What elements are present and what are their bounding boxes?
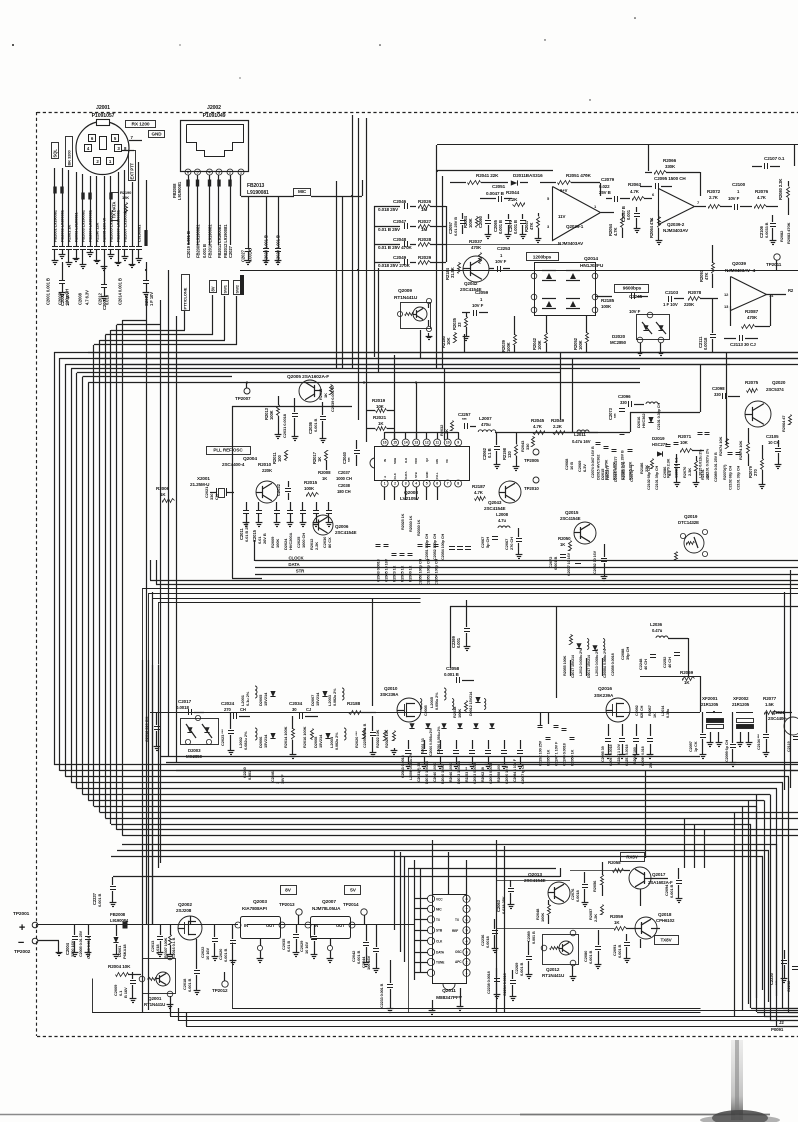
capacitor C2016 220 CH [144, 712, 160, 751]
svg-text:R2: R2 [788, 288, 794, 293]
ferrite bead FB2008 vlabel [172, 181, 182, 200]
capacitor C2035 [281, 925, 299, 957]
resistor R2006 1K [156, 486, 175, 503]
svg-text:R2062 39: R2062 39 [481, 767, 485, 782]
capacitor C2098 330 CH [712, 386, 740, 399]
signal label GND [149, 131, 165, 138]
capacitor C2040 [342, 440, 360, 466]
svg-text:0.01 25V B: 0.01 25V B [453, 217, 458, 236]
caps under Q2016 [601, 743, 653, 768]
inductor L2007 470u [478, 416, 540, 433]
svg-text:B 16V: B 16V [123, 987, 128, 998]
test point TP2010 [524, 477, 539, 491]
svg-text:6+V: 6+V [560, 188, 568, 193]
svg-text:R2070(?): R2070(?) [723, 464, 727, 480]
capacitor C2082 10 16V [593, 544, 607, 581]
resistor R2037 470K [469, 239, 483, 264]
capacitor C2236 0.001B [480, 919, 498, 953]
wire IF path [630, 676, 701, 713]
svg-text:RX8V: RX8V [626, 855, 639, 860]
capacitor C2095 1500 CH [640, 176, 686, 189]
ferrite bead mid [240, 275, 244, 295]
RX/TX section box [408, 869, 701, 1013]
svg-text:FB2007 L9190081: FB2007 L9190081 [123, 209, 128, 242]
transistor Q2009 RT1N441U [394, 288, 432, 340]
svg-text:21R1205: 21R1205 [701, 702, 719, 707]
resistor R2075 [745, 380, 759, 393]
svg-text:10 CK: 10 CK [768, 440, 779, 445]
caps column C2051-54 [425, 534, 471, 560]
svg-text:FB2013: FB2013 [247, 183, 265, 189]
svg-text:R2044: R2044 [506, 190, 520, 195]
svg-text:3: 3 [405, 482, 407, 486]
svg-text:IN: IN [244, 923, 248, 928]
svg-text:C2098: C2098 [712, 386, 725, 391]
capacitor C2034 30 CJ [289, 701, 318, 719]
capacitor C2062 [482, 432, 500, 469]
svg-text:C2005: C2005 [424, 705, 428, 716]
svg-text:C2043 0.0018: C2043 0.0018 [377, 559, 381, 582]
svg-text:R2080 2.2K: R2080 2.2K [778, 179, 783, 200]
capacitor C2107 [752, 156, 785, 169]
capacitor C2077 10 16V [567, 552, 581, 576]
svg-text:0.001 B: 0.001 B [669, 884, 674, 898]
svg-text:FB2003 L9190081: FB2003 L9190081 [81, 209, 86, 242]
signal label 8V [281, 886, 297, 895]
svg-text:C2090 10 B: C2090 10 B [505, 765, 509, 784]
svg-text:L2014: L2014 [661, 705, 665, 716]
svg-text:SQL: SQL [52, 149, 57, 158]
svg-text:P6KA18: P6KA18 [122, 944, 127, 959]
svg-text:0.022: 0.022 [599, 184, 610, 189]
svg-text:470K: 470K [471, 245, 482, 250]
FET Q2002 pass transistor [176, 902, 202, 940]
svg-text:14: 14 [404, 441, 408, 445]
svg-text:100K: 100K [457, 709, 462, 718]
svg-text:10 B: 10 B [569, 462, 574, 470]
svg-text:Q2021: Q2021 [772, 710, 785, 715]
test point TP2013 [279, 902, 302, 925]
svg-text:C2079: C2079 [601, 177, 615, 182]
svg-text:OUT: OUT [266, 923, 275, 928]
svg-text:1K: 1K [317, 457, 322, 462]
svg-text:1 F 10V: 1 F 10V [65, 292, 70, 306]
mixer diodes row [409, 723, 494, 729]
svg-text:C2037: C2037 [338, 470, 351, 475]
capacitor C2259 0.001 [451, 600, 470, 651]
wire PLL right rail [540, 412, 700, 433]
resistor R2180 [441, 333, 457, 349]
resistor R2035 33 [452, 313, 469, 341]
svg-text:5: 5 [465, 929, 467, 933]
resistor R2076 4.7K [755, 189, 779, 209]
schematic sheet border (dashed) [37, 112, 798, 1037]
digital transistor Q2001 RT1N441U [139, 954, 175, 1008]
diode D2011 BAS316 [492, 173, 543, 186]
diode D2007 15V214 [310, 691, 328, 706]
svg-text:R2187: R2187 [472, 484, 486, 489]
svg-text:TX8V: TX8V [660, 938, 672, 943]
svg-text:C2088 B 0.1: C2088 B 0.1 [675, 458, 679, 478]
J2001 fanout wires [55, 162, 147, 246]
svg-text:9600bps: 9600bps [623, 286, 642, 292]
svg-text:0.001 B: 0.001 B [532, 931, 536, 944]
capacitor C2102 68p CH [647, 466, 659, 490]
svg-text:DATA: DATA [436, 951, 445, 955]
svg-text:APC: APC [455, 960, 462, 964]
svg-text:4.7K: 4.7K [613, 227, 618, 236]
transistor Q2005 2SA1602A-F [287, 374, 329, 402]
svg-text:Q2039-1: Q2039-1 [566, 224, 584, 229]
svg-text:STR: STR [296, 569, 305, 574]
svg-text:Q2014: Q2014 [584, 256, 598, 262]
svg-text:6: 6 [187, 170, 189, 174]
transistor Q2012 RT1N441U [541, 930, 578, 980]
resistor R2066 330K [645, 158, 701, 196]
svg-text:FB2008: FB2008 [110, 912, 126, 917]
connector ref J2 P0091 [771, 1020, 784, 1032]
diode D2008 15V214 [313, 733, 331, 748]
svg-text:R2025 1K: R2025 1K [401, 513, 405, 530]
cluster above Q2016 [563, 635, 615, 679]
svg-text:2.2K: 2.2K [593, 914, 598, 922]
svg-text:Q2015: Q2015 [565, 510, 579, 515]
capacitor C2089b [527, 931, 536, 944]
capacitor C2051 0.0047B [480, 184, 512, 202]
resistor R2020 [354, 729, 366, 749]
regulator Q2003 KIA7808API [235, 899, 285, 963]
svg-text:R2087: R2087 [745, 309, 759, 314]
svg-text:L9190081: L9190081 [177, 181, 182, 200]
signal label BK 3200 [66, 137, 73, 167]
svg-text:1000 CH: 1000 CH [301, 533, 306, 548]
J2002 pin wires with ferrite beads FB2009-FB2012 [186, 175, 240, 245]
capacitor C2105 10 CK [766, 434, 781, 469]
Q2008 top pin wires [385, 432, 459, 439]
resistor R2022 10K [376, 729, 387, 748]
svg-text:31.5K: 31.5K [450, 267, 455, 278]
svg-text:0.0018: 0.0018 [703, 337, 708, 350]
terminal TP2002 [14, 937, 62, 956]
crystal filter XF2002 21R1205 [732, 696, 754, 747]
left column decoupling caps [52, 247, 143, 271]
FET Q2016 3SK239A [594, 686, 630, 722]
VCO right label forest [596, 433, 679, 481]
capacitor C2044 [361, 925, 379, 973]
power section box [93, 943, 701, 1013]
svg-text:D2020: D2020 [612, 334, 626, 339]
svg-text:C2050 100p CH: C2050 100p CH [419, 559, 423, 585]
svg-text:1 F 10V: 1 F 10V [663, 302, 678, 307]
svg-text:270 CH: 270 CH [509, 537, 514, 550]
svg-text:D2011BAS316: D2011BAS316 [513, 173, 543, 178]
svg-text:C2038: C2038 [338, 483, 351, 488]
mixer lower caps row [405, 740, 523, 762]
svg-text:39p CH: 39p CH [625, 647, 630, 660]
transistor Q2020 2SC5374 [745, 380, 786, 427]
svg-text:R2065 22K: R2065 22K [629, 461, 633, 480]
svg-text:R2006: R2006 [156, 486, 170, 491]
IC Q2011 M88347PFV [427, 895, 470, 1002]
svg-text:FB2004 L9190081: FB2004 L9190081 [88, 209, 93, 242]
resistor R2045 4.7K [531, 418, 545, 435]
J2001 pins [85, 135, 122, 165]
svg-text:R2082: R2082 [779, 230, 784, 242]
svg-text:Q2005 2SA1602A-F: Q2005 2SA1602A-F [287, 374, 329, 380]
resistor R2074 10K [738, 428, 750, 466]
svg-text:C2232: C2232 [786, 980, 791, 992]
svg-text:0.001 B: 0.001 B [313, 418, 318, 432]
svg-text:L2007: L2007 [479, 416, 492, 421]
svg-text:R2051 470K: R2051 470K [566, 173, 592, 178]
long vertical wires from J2001 area [147, 270, 177, 925]
svg-text:2SC4400-4: 2SC4400-4 [222, 462, 245, 467]
svg-text:9: 9 [457, 441, 459, 445]
long vertical wires mid column [337, 115, 418, 442]
bus labels CLOCK DATA STR [284, 556, 308, 574]
capacitor C2042 [351, 925, 369, 967]
svg-text:100: 100 [277, 455, 282, 462]
svg-text:IN: IN [383, 459, 387, 462]
labels right of Q2010 [421, 705, 441, 756]
svg-text:2: 2 [394, 482, 396, 486]
svg-text:21R1205: 21R1205 [732, 702, 750, 707]
svg-text:RT1N441U: RT1N441U [144, 1002, 165, 1007]
svg-text:R2028: R2028 [418, 237, 432, 242]
labels mid cluster 1 [564, 446, 634, 482]
svg-text:***: *** [347, 457, 352, 462]
svg-text:C2017 15V214: C2017 15V214 [571, 655, 575, 678]
signal label RX8V [621, 853, 645, 862]
regulator Q2007 NJM78L05UA [305, 899, 355, 963]
svg-text:R2022 10K: R2022 10K [376, 729, 380, 748]
FET Q2010 3SK239A [380, 686, 421, 722]
resistor R2024 10K [385, 729, 397, 754]
svg-text:NJM3403AV: NJM3403AV [558, 241, 584, 246]
resistor R2015 100K [304, 480, 319, 497]
svg-text:L2013 0.068u 2%: L2013 0.068u 2% [595, 648, 599, 676]
svg-text:R2074 10K: R2074 10K [738, 440, 743, 460]
svg-text:0.47u: 0.47u [652, 628, 663, 633]
svg-text:R2059: R2059 [610, 914, 624, 919]
svg-text:270: 270 [224, 707, 231, 712]
svg-text:RT1N441U: RT1N441U [394, 295, 418, 301]
bus bundle bottom horizontals [54, 765, 798, 836]
svg-text:10V F: 10V F [629, 309, 641, 314]
svg-text:R2061 470K: R2061 470K [605, 459, 609, 480]
svg-text:J2002: J2002 [207, 105, 221, 111]
svg-text:330: 330 [525, 443, 530, 450]
svg-text:100K: 100K [537, 340, 542, 350]
resistor R2072 2.7K [707, 189, 728, 209]
svg-text:M88347PFV: M88347PFV [436, 995, 463, 1001]
signal label RX 1200 [126, 121, 156, 128]
svg-text:R2024 10K: R2024 10K [385, 729, 389, 748]
svg-text:R2071: R2071 [678, 434, 692, 439]
svg-text:R2050 1K: R2050 1K [571, 749, 575, 766]
svg-text:GND: GND [152, 132, 163, 137]
svg-text:Q2007: Q2007 [322, 899, 336, 905]
svg-text:C2083 0.0018: C2083 0.0018 [473, 763, 477, 784]
svg-text:R2005 10K W: R2005 10K W [102, 218, 107, 242]
svg-text:4.7K: 4.7K [533, 424, 543, 429]
svg-text:15V214: 15V214 [318, 734, 323, 748]
op-amp U Q2039-2 [651, 189, 706, 234]
capacitor C2023 [220, 712, 234, 755]
svg-text:CLK: CLK [436, 940, 443, 944]
svg-text:10K: 10K [680, 440, 689, 445]
labels C2037 C2038 [336, 470, 352, 494]
svg-text:1: 1 [240, 170, 242, 174]
signal label SW2 [234, 281, 241, 295]
svg-text:470u: 470u [481, 422, 491, 427]
svg-text:C2095 1500 CH: C2095 1500 CH [654, 176, 686, 181]
svg-text:C2101 39p CH: C2101 39p CH [655, 466, 659, 490]
svg-text:L2008: L2008 [496, 512, 509, 517]
capacitor C2234 [503, 970, 516, 1001]
wire to C2237 [113, 868, 561, 882]
svg-text:R2020 ***: R2020 *** [354, 731, 359, 748]
svg-text:C2246: C2246 [271, 771, 275, 782]
left PLL labels column [239, 523, 332, 550]
svg-text:R2049: R2049 [551, 418, 565, 423]
resistor R2069 1K [680, 670, 695, 685]
svg-text:SW1: SW1 [222, 284, 227, 293]
svg-text:7: 7 [465, 907, 467, 911]
capacitor C2065 0.001B [493, 214, 511, 239]
svg-text:2.2K: 2.2K [314, 542, 319, 550]
resistor R2056 [592, 862, 604, 896]
svg-text:180 CH: 180 CH [337, 489, 351, 494]
svg-text:330: 330 [620, 400, 627, 405]
svg-text:R2003 L9190081: R2003 L9190081 [74, 212, 79, 242]
transistor Q2015 2SC4154E [560, 510, 596, 544]
svg-text:C2103: C2103 [665, 290, 679, 295]
inductor L2002 [238, 728, 257, 750]
scan artifact bottom line [0, 1114, 770, 1116]
resistor R2049 2.2K [551, 418, 575, 435]
svg-text:Q2042: Q2042 [464, 281, 478, 286]
capacitor C2250 0.001 B [363, 716, 376, 757]
svg-text:R2064 47K: R2064 47K [649, 218, 654, 238]
svg-text:Q2019: Q2019 [684, 514, 698, 519]
svg-text:C2032: C2032 [276, 483, 281, 496]
transistor Q2043 2SC4154E [484, 481, 521, 511]
svg-text:R2030 1K: R2030 1K [409, 515, 413, 532]
bus CLOCK DATA STR lines [150, 561, 798, 585]
svg-text:D2012 15V214: D2012 15V214 [469, 691, 473, 716]
resistor R2071 10K [678, 434, 704, 453]
svg-text:R2075: R2075 [745, 380, 759, 385]
svg-text:FB2001 L9190081: FB2001 L9190081 [53, 209, 58, 242]
svg-text:3SK239A: 3SK239A [380, 692, 399, 697]
svg-text:0.001 B: 0.001 B [519, 962, 524, 976]
svg-text:80 CX: 80 CX [327, 537, 332, 548]
svg-text:1.5K: 1.5K [765, 702, 775, 707]
capacitor C2009 [113, 972, 136, 1003]
op-amp U Q2039-1 [547, 187, 614, 247]
svg-text:P1091057: P1091057 [92, 113, 115, 119]
svg-text:C2101 0.39p CH: C2101 0.39p CH [657, 403, 661, 430]
svg-text:100K: 100K [269, 410, 274, 420]
svg-text:2.2K: 2.2K [553, 424, 563, 429]
right bus verticals [735, 794, 757, 1016]
wire Q2008 top rail [385, 432, 459, 434]
svg-text:Q2010: Q2010 [384, 686, 398, 691]
capacitor C2007 [101, 266, 108, 310]
svg-text:D2019: D2019 [652, 436, 665, 441]
bus lines lower mid [111, 844, 777, 1002]
svg-text:R2058: R2058 [608, 860, 621, 865]
svg-text:3: 3 [465, 950, 467, 954]
svg-text:R2074 10K: R2074 10K [718, 436, 723, 456]
J2002 fanout labels [186, 224, 233, 258]
capacitor C2002 [59, 262, 70, 306]
svg-text:CPH6102: CPH6102 [656, 918, 675, 923]
inductor L2036 0.47u [650, 622, 689, 676]
resistor R2052 100K [573, 316, 589, 352]
signal label 8V(sw) [210, 281, 217, 293]
diode D2019 HSC277 [652, 436, 668, 457]
svg-text:1200bps: 1200bps [533, 255, 552, 261]
connector J2001 label [92, 105, 115, 119]
svg-text:C2058 0.0018: C2058 0.0018 [611, 653, 615, 676]
svg-text:R2021: R2021 [373, 415, 387, 420]
left PLL bus labels col [401, 513, 421, 536]
resistor R2054 4.7K [608, 213, 624, 238]
wire section B top rail [437, 145, 798, 369]
svg-text:0.1 B: 0.1 B [487, 448, 492, 458]
svg-text:FU-L: FU-L [435, 472, 439, 479]
svg-text:0.082u 2%: 0.082u 2% [333, 688, 337, 706]
bus left risers [151, 540, 255, 585]
svg-text:R2072: R2072 [707, 189, 721, 194]
crystal X2001 21.25M-U [190, 476, 234, 498]
wire mixer signal path [150, 712, 640, 714]
svg-text:VCC: VCC [436, 897, 443, 901]
svg-text:0.01 B 25V: 0.01 B 25V [244, 523, 249, 542]
svg-text:10V F: 10V F [472, 303, 484, 308]
IC Q2008 LV2105V [370, 439, 470, 502]
resistor R2058b [608, 860, 630, 873]
resistor R2038 100K [452, 701, 468, 719]
svg-text:VDD: VDD [414, 457, 418, 464]
svg-text:C2253: C2253 [497, 246, 511, 251]
IF stage labels mid [538, 712, 575, 766]
wire main power rail [247, 924, 415, 926]
svg-text:47K: 47K [704, 273, 709, 280]
svg-text:GND: GND [425, 471, 429, 478]
svg-text:R2037: R2037 [469, 239, 483, 244]
svg-text:0.001 B: 0.001 B [588, 950, 593, 964]
capacitor C2094 0.001 B [664, 868, 682, 903]
svg-text:C2096: C2096 [618, 394, 631, 399]
capacitor C2010 [143, 262, 154, 306]
ferrite beads row [53, 187, 147, 247]
svg-text:R2030 1K: R2030 1K [409, 565, 413, 582]
svg-text:MIC: MIC [298, 189, 307, 194]
svg-text:15V214: 15V214 [263, 734, 268, 748]
svg-text:PTT/CLONE: PTT/CLONE [182, 287, 187, 309]
resistor R2050 [558, 536, 572, 551]
IC Q2011 box wires top [433, 840, 467, 895]
wire RC cluster drops [375, 262, 465, 373]
svg-text:L2011: L2011 [574, 432, 586, 437]
svg-text:C2031(?) 33: C2031(?) 33 [417, 763, 421, 782]
capacitor C2269 0.001B [514, 941, 532, 979]
svg-text:4.7K: 4.7K [474, 490, 484, 495]
svg-text:2SA1602A-F: 2SA1602A-F [648, 880, 673, 885]
